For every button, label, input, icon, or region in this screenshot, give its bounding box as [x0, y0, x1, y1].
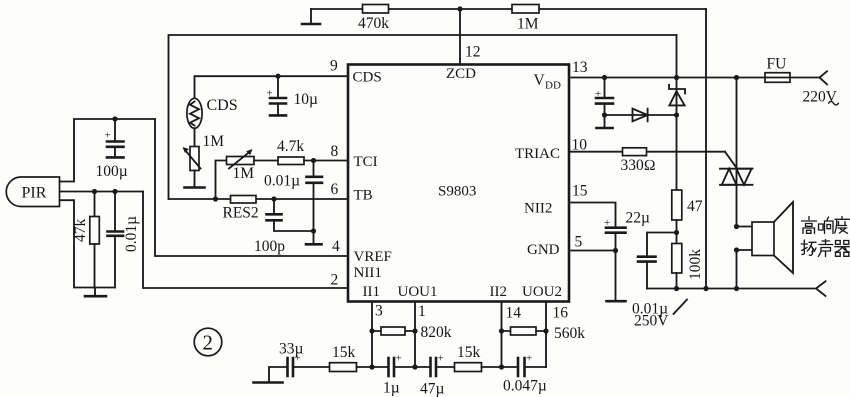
wire bottom mains rail	[647, 288, 816, 290]
svg-text:100p: 100p	[254, 238, 285, 255]
wire ZCD pin 12 drop	[459, 9, 461, 65]
wire chain to pin 16	[525, 366, 547, 368]
wire PIR middle pin (signal)	[60, 191, 144, 193]
wire pin 6 / RES2 rail	[169, 198, 349, 200]
wire pin 3 drop	[371, 302, 373, 368]
svg-text:V: V	[534, 72, 546, 89]
node pin5/22µ junction	[613, 248, 618, 253]
capacitor 1µ	[383, 353, 402, 397]
wire mains live vertical	[705, 9, 707, 289]
node 47/100k junction	[674, 230, 679, 235]
wire pin 8	[304, 160, 348, 162]
svg-text:UOU2: UOU2	[522, 284, 562, 300]
resistor 1M (top)	[512, 5, 539, 33]
svg-text:S9803: S9803	[438, 184, 476, 200]
label speaker 度	[835, 217, 850, 234]
svg-text:8: 8	[331, 143, 339, 160]
node 100p junction	[271, 196, 276, 201]
node diode-cap junction	[602, 112, 607, 117]
resistor 4.7k	[277, 138, 304, 165]
svg-text:14: 14	[506, 305, 522, 322]
fuse FU	[765, 56, 790, 83]
svg-text:5: 5	[575, 234, 583, 251]
resistor 47k	[72, 192, 99, 288]
svg-text:2: 2	[331, 272, 339, 289]
svg-text:2: 2	[203, 331, 214, 355]
wire chain	[482, 366, 519, 368]
node pin8/cap junction	[311, 158, 316, 163]
ground (below pin 5)	[607, 251, 626, 302]
label speaker 声	[818, 240, 832, 257]
svg-text:100k: 100k	[687, 249, 704, 280]
op-amp U1 : IC S9803 body	[348, 65, 569, 302]
svg-text:22µ: 22µ	[626, 210, 651, 227]
terminal 220V live	[803, 71, 839, 105]
node zener junction top	[674, 75, 679, 80]
svg-text:II1: II1	[363, 284, 381, 300]
wire pin 13 VDD rail	[569, 77, 820, 79]
wire chain	[394, 366, 431, 368]
diode D1	[633, 109, 648, 122]
node speaker bottom junction	[734, 286, 739, 291]
wire pin 16 drop	[545, 302, 547, 368]
svg-text:47: 47	[687, 198, 703, 215]
node 47k top	[92, 189, 97, 194]
svg-text:DD: DD	[545, 80, 561, 92]
capacitor 33µ	[279, 341, 304, 377]
resistor 470k	[358, 5, 389, 33]
svg-text:250V: 250V	[634, 313, 669, 330]
node ZCD junction	[457, 6, 462, 11]
wire PIR top pin to VREF rail	[60, 119, 156, 182]
wire to 4.7k	[254, 160, 278, 162]
svg-text:0.01µ: 0.01µ	[264, 173, 300, 190]
wire CDS box top	[169, 35, 677, 199]
svg-text:+: +	[105, 130, 111, 142]
label speaker 高	[802, 217, 817, 234]
svg-text:NII1: NII1	[354, 265, 382, 281]
svg-text:TCI: TCI	[354, 154, 378, 170]
zener diode ZD1	[669, 85, 685, 106]
speaker LS1	[752, 202, 793, 273]
capacitor 22µ	[604, 210, 650, 251]
wire pin 15 NII2	[569, 203, 616, 228]
wire zener/47/100k vertical	[676, 35, 678, 190]
svg-text:0.01µ: 0.01µ	[123, 216, 140, 252]
ground (below 0.01µ/100p)	[306, 231, 322, 244]
wire VREF drop to pin 4	[155, 119, 348, 256]
svg-text:12: 12	[465, 44, 481, 61]
resistor 15k (left)	[330, 344, 357, 372]
figure mark (2)	[194, 328, 222, 356]
ground (below 1M pot)	[185, 171, 205, 188]
wire speaker stubs	[737, 227, 753, 289]
svg-text:NII2: NII2	[524, 201, 552, 217]
capacitor 47µ	[420, 353, 445, 397]
svg-text:+: +	[396, 353, 402, 365]
resistor RES2	[223, 196, 259, 222]
svg-text:1M: 1M	[517, 16, 539, 33]
svg-text:GND: GND	[527, 242, 560, 258]
ground (below filter cap)	[597, 127, 613, 130]
resistor 820k	[369, 324, 451, 341]
capacitor (VDD filter, polarized)	[595, 78, 613, 127]
node zener anode junction	[674, 112, 679, 117]
svg-text:3: 3	[375, 303, 383, 320]
node speaker bottom terminal	[734, 247, 739, 252]
svg-text:PIR: PIR	[22, 185, 47, 202]
svg-text:16: 16	[553, 305, 569, 322]
label speaker 响	[819, 217, 834, 234]
potentiometer 1M (horizontal)	[227, 149, 255, 182]
capacitor 0.01µ/250V	[632, 233, 687, 330]
node pin1 chain junction	[412, 364, 417, 369]
svg-text:1M: 1M	[203, 133, 225, 150]
resistor 330Ω	[621, 148, 656, 174]
resistor 100k	[672, 233, 704, 289]
wire pin 1 drop	[414, 302, 416, 368]
svg-text:33µ: 33µ	[279, 341, 304, 358]
svg-text:1: 1	[418, 303, 426, 320]
wire chain	[436, 366, 455, 368]
wire top mains rail	[311, 8, 706, 10]
svg-text:TRIAC: TRIAC	[515, 146, 560, 162]
ground (PIR)	[85, 288, 106, 297]
svg-text:560k: 560k	[554, 325, 585, 342]
svg-text:VREF: VREF	[354, 249, 392, 265]
svg-text:820k: 820k	[421, 324, 452, 341]
wire signal drop to pin 2	[143, 192, 348, 289]
node 100k bottom junction	[674, 286, 679, 291]
svg-text:10µ: 10µ	[294, 91, 319, 108]
svg-text:CDS: CDS	[353, 70, 382, 86]
label speaker 扬	[801, 240, 816, 255]
svg-text:TB: TB	[354, 188, 373, 204]
node cap common junction	[311, 228, 316, 233]
svg-text:+: +	[438, 353, 444, 365]
svg-text:1µ: 1µ	[383, 380, 400, 397]
svg-text:15: 15	[572, 183, 588, 200]
wire pin 5 GND	[569, 250, 616, 252]
svg-text:330Ω: 330Ω	[621, 157, 656, 174]
wire pin 10 TRIAC gate	[569, 151, 725, 153]
node pin14 chain junction	[499, 364, 504, 369]
capacitor 100p	[254, 199, 314, 255]
svg-text:470k: 470k	[358, 15, 389, 32]
resistor 560k	[499, 325, 585, 342]
wire diode link	[605, 114, 677, 116]
svg-text:15k: 15k	[332, 344, 356, 361]
wire gate diagonal	[725, 152, 737, 168]
capacitor 0.01µ (PIR)	[108, 192, 141, 288]
wire PIR bottom pin to ground rail	[60, 200, 116, 287]
node triac line junction	[734, 75, 739, 80]
svg-text:4.7k: 4.7k	[277, 138, 304, 155]
svg-text:CDS: CDS	[207, 97, 238, 114]
node 10µ junction	[275, 74, 280, 79]
wire pin 9 (CDS)	[195, 76, 349, 98]
svg-text:ZCD: ZCD	[446, 66, 476, 82]
svg-text:FU: FU	[767, 56, 787, 73]
ground (feedback chain)	[254, 367, 288, 383]
label speaker 器	[835, 241, 850, 257]
node 100µ junction	[112, 116, 117, 121]
potentiometer 1M (below CDS)	[183, 128, 225, 170]
capacitor 10µ	[267, 76, 319, 115]
svg-text:0.047µ: 0.047µ	[503, 378, 547, 395]
svg-text:100µ: 100µ	[96, 163, 128, 180]
svg-text:UOU1: UOU1	[398, 284, 438, 300]
svg-text:9: 9	[330, 58, 338, 75]
capacitor 0.047µ	[503, 353, 547, 395]
triac T1	[720, 169, 753, 185]
photoresistor CDS	[187, 97, 238, 128]
wire 1M pot left branch	[216, 161, 227, 200]
wire pin 14 drop	[501, 302, 503, 368]
ground (top-left, 470k return)	[302, 9, 320, 24]
node speaker top terminal	[734, 224, 739, 229]
capacitor 100µ	[96, 119, 128, 180]
svg-text:RES2: RES2	[223, 205, 259, 222]
svg-text:13: 13	[572, 59, 588, 76]
capacitor 0.01µ (TCI-TB)	[264, 161, 322, 232]
node 0.01µ top	[112, 189, 117, 194]
PIR sensor	[6, 177, 59, 207]
resistor 15k (right)	[455, 344, 482, 372]
node RES2 left junction	[213, 196, 218, 201]
svg-text:1M: 1M	[233, 165, 255, 182]
svg-text:4: 4	[332, 238, 340, 255]
wire triac vertical	[736, 78, 738, 227]
resistor 47	[672, 190, 703, 233]
wire chain	[357, 366, 389, 368]
node filter cap junction	[602, 75, 607, 80]
terminal 220V neutral	[816, 281, 826, 296]
svg-text:6: 6	[331, 181, 339, 198]
wire chain	[293, 366, 330, 368]
node mains live bottom junction	[703, 286, 708, 291]
svg-text:15k: 15k	[457, 344, 481, 361]
svg-text:II2: II2	[490, 284, 508, 300]
svg-text:47µ: 47µ	[420, 381, 445, 397]
node pin3 chain junction	[369, 364, 374, 369]
svg-text:+: +	[526, 353, 532, 365]
